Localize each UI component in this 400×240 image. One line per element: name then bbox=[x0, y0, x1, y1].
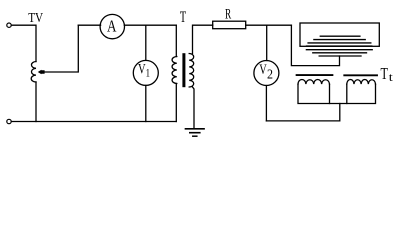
svg-text:t: t bbox=[389, 70, 394, 84]
svg-text:2: 2 bbox=[267, 68, 273, 83]
wire terminal to corner bbox=[12, 25, 36, 61]
voltmeter V2 bbox=[254, 61, 279, 86]
bottom wire right circuit bbox=[266, 104, 339, 121]
Tt winding box 1 coil bbox=[298, 80, 330, 85]
Tt winding box 1 body bbox=[298, 84, 330, 103]
terminal bottom-left bbox=[7, 119, 11, 123]
transformer T secondary top wire bbox=[193, 25, 213, 53]
connector between winding boxes bbox=[330, 103, 347, 105]
wire R to right corner bbox=[246, 24, 292, 26]
ground bbox=[186, 128, 205, 130]
voltmeter V1 branch wire upper bbox=[145, 25, 147, 60]
voltmeter V2 branch upper bbox=[266, 25, 268, 60]
svg-text:T: T bbox=[381, 64, 389, 83]
svg-text:A: A bbox=[107, 16, 117, 35]
svg-text:TV: TV bbox=[28, 10, 43, 25]
bottom rail (left circuit) bbox=[12, 121, 177, 123]
voltmeter V2 branch lower bbox=[265, 86, 267, 121]
voltmeter V1 bbox=[133, 60, 158, 85]
autotransformer TV winding bbox=[31, 62, 36, 83]
transformer T core bbox=[182, 53, 185, 87]
top wire ammeter to transformer bbox=[124, 24, 176, 26]
ammeter A bbox=[100, 14, 124, 38]
svg-text:V: V bbox=[259, 62, 267, 78]
test object winding stack bbox=[306, 36, 372, 56]
transformer T primary winding bbox=[172, 57, 177, 84]
top wire wiper to ammeter bbox=[78, 24, 100, 26]
test object tank rectangle bbox=[300, 23, 379, 46]
voltmeter V1 branch wire lower bbox=[145, 85, 147, 121]
svg-text:1: 1 bbox=[146, 67, 151, 79]
Tt winding box 1 core bar bbox=[297, 74, 333, 76]
transformer T secondary ground wire bbox=[193, 87, 195, 128]
resistor R bbox=[213, 21, 246, 29]
svg-text:T: T bbox=[180, 9, 186, 26]
svg-text:R: R bbox=[225, 7, 231, 23]
terminal top-left bbox=[7, 23, 11, 27]
wiper arrowhead bbox=[38, 70, 45, 74]
wire right corner down and to stack bbox=[291, 25, 339, 65]
transformer T secondary winding bbox=[189, 54, 194, 88]
transformer T primary top wire bbox=[175, 25, 177, 56]
wiper arrow line of TV bbox=[44, 25, 78, 72]
transformer T primary bottom wire bbox=[175, 84, 177, 122]
Tt winding box 2 coil bbox=[347, 79, 376, 84]
Tt winding box 2 body bbox=[347, 84, 376, 103]
Tt winding box 2 core bar bbox=[344, 74, 377, 76]
wire TV winding bottom to bottom rail bbox=[35, 82, 37, 122]
